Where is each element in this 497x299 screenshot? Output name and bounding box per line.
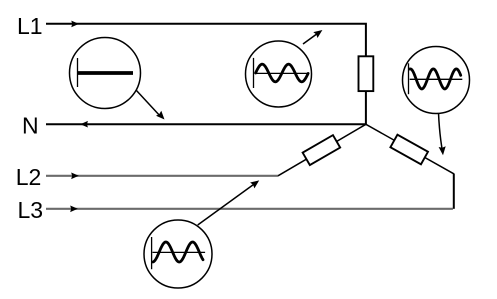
svg-text:L3: L3 [18, 197, 44, 223]
svg-text:N: N [22, 113, 39, 139]
svg-text:L1: L1 [17, 13, 43, 39]
svg-text:L2: L2 [16, 164, 42, 190]
